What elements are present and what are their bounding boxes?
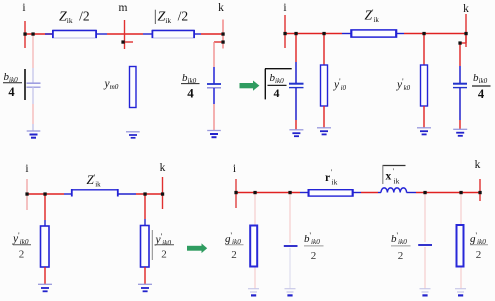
- label y'_i0: [333, 77, 347, 92]
- ground (TL middle): [126, 132, 140, 138]
- node k tick (TR) and jog: [460, 14, 466, 47]
- ground (BL right): [138, 284, 152, 291]
- label y_m0: [104, 78, 119, 91]
- wire below capacitor (TR left): [295, 88, 297, 130]
- inductor x'_ik: [381, 188, 407, 193]
- wire below capacitor (TR right): [459, 88, 461, 129]
- label y'_ik0/2 (BL right) with left bar: [152, 230, 174, 261]
- admittance box y'_ik0/2 (BL left): [41, 226, 50, 267]
- left branch wire (BL): [44, 194, 46, 226]
- label b_ik0/4 (TL left) with right bar: [3, 69, 25, 100]
- svg-text:2: 2: [398, 250, 404, 262]
- capacitor b_ik0/4 (TR left): [289, 84, 304, 88]
- conductance box g'_ik0/2 (BR right): [457, 225, 464, 267]
- svg-text:m: m: [119, 2, 128, 14]
- node i tick (BL): [26, 179, 28, 210]
- label g'_ik0/2 (BR right): [470, 231, 488, 261]
- label b_ik0/4 (TR left) with frame: [265, 69, 292, 100]
- capacitor b_ik0/4 (TR right): [453, 84, 467, 88]
- admittance box y_m0: [130, 67, 137, 108]
- ground (TL right): [207, 131, 221, 138]
- svg-text:4: 4: [274, 86, 280, 100]
- admittance box y'_i0: [321, 65, 328, 106]
- label b_ik0/4 (TR right): [472, 72, 491, 101]
- svg-text:2: 2: [161, 249, 167, 261]
- capacitor b_ik0/4 (TL right): [207, 84, 221, 88]
- branch 2 wire above box (TR): [323, 34, 325, 66]
- label Z'_ik (BL): [87, 172, 102, 189]
- ground (TR branch 1): [289, 130, 303, 136]
- wire below capacitor to ground: [213, 88, 215, 130]
- svg-text:x: x: [386, 171, 392, 183]
- branch 4 wire (TR, at k): [459, 43, 461, 84]
- wire lead blue left of box1: [45, 33, 53, 35]
- node k tick (BR): [479, 179, 481, 201]
- svg-text:i: i: [22, 2, 25, 14]
- label Z_ik/2 (right) with leading bar: [155, 9, 188, 26]
- ground (BR branch 1): [248, 289, 259, 296]
- svg-text:k: k: [475, 159, 481, 171]
- wire below box to ground (BL right): [144, 267, 146, 284]
- branch 4 wire (BR, g right): [460, 193, 462, 289]
- label Z_ik/2 (left): [59, 9, 90, 26]
- ground (TR branch 2): [317, 128, 331, 135]
- node k junction dots and jog: [214, 41, 223, 43]
- label Z'_ik: [365, 8, 380, 25]
- branch 2 wire (BR, b left): [289, 193, 291, 289]
- branch 2 wire below box: [323, 106, 325, 128]
- ground (TR branch 3): [417, 128, 431, 135]
- svg-text:ik: ik: [332, 178, 338, 187]
- svg-text:2: 2: [311, 250, 317, 262]
- label y'_ik0/2 (BL left): [12, 231, 31, 261]
- label b'_ik0/2 (BR branch 3): [391, 231, 411, 262]
- svg-text:k: k: [160, 162, 166, 174]
- resistor box Z'_ik: [351, 30, 397, 38]
- svg-text:i: i: [283, 2, 286, 14]
- ground (BR branch 2): [285, 289, 296, 296]
- ground (TR branch 4): [453, 129, 467, 136]
- resistor box Z_ik/2 (left): [53, 30, 97, 38]
- svg-text:2: 2: [19, 249, 25, 261]
- wire box1 to m: [97, 33, 144, 35]
- capacitor b'_ik0/2 (BR left) single plate: [284, 245, 298, 247]
- wire i to box1: [25, 33, 52, 35]
- label r'_ik: [325, 168, 338, 187]
- capacitor b_ik0/4 (left): [27, 83, 41, 87]
- wire box2 to k: [195, 33, 224, 35]
- node k tick (BL): [162, 177, 164, 209]
- svg-text:4: 4: [8, 85, 15, 99]
- resistor box r'_ik: [308, 189, 353, 196]
- right branch wire (BL): [144, 194, 146, 226]
- branch 3 wire above box (TR): [423, 34, 425, 66]
- bottom wire (BL): [27, 193, 163, 195]
- junction dots (all circuits, drawn on top): [23, 32, 481, 196]
- green arrow 1: [240, 81, 260, 91]
- wire below box to ground (BL left): [44, 267, 46, 284]
- ground (BR branch 4): [455, 289, 466, 296]
- label y'_k0: [396, 77, 411, 92]
- green arrow 2: [187, 243, 207, 253]
- bottom wire (BR): [236, 192, 480, 194]
- node i tick (TR): [284, 15, 286, 48]
- wire below capacitor: [32, 87, 34, 131]
- svg-text:k: k: [463, 3, 469, 15]
- svg-text:4: 4: [187, 86, 194, 101]
- admittance box y'_ik0/2 (BL right): [141, 226, 150, 268]
- ground (TL left): [27, 131, 41, 138]
- node k tick: [222, 20, 224, 49]
- branch 3 wire below box: [423, 106, 425, 128]
- svg-text:i: i: [25, 163, 28, 175]
- svg-text:i: i: [233, 163, 236, 175]
- wire lead blue left of box2: [143, 33, 152, 35]
- wire branch k down: [213, 42, 215, 84]
- svg-text:2: 2: [231, 249, 237, 261]
- branch 1 wire (TR, at i): [295, 34, 297, 84]
- svg-text:2: 2: [476, 249, 482, 261]
- admittance box y'_k0: [421, 65, 428, 106]
- conductance box g'_ik0/2 (BR left): [250, 226, 257, 267]
- label x'_ik with overline frame: [383, 166, 406, 186]
- ground (BR branch 3): [420, 289, 431, 296]
- ground (BL left): [38, 284, 52, 291]
- svg-text:k: k: [218, 2, 224, 14]
- node i tick (BR): [235, 179, 237, 208]
- label b_ik0/4 (TL right): [181, 72, 200, 101]
- resistor box Z_ik/2 (right): [152, 30, 195, 38]
- svg-text:ik: ik: [394, 177, 400, 186]
- node m tick: [122, 20, 133, 49]
- svg-text:r: r: [325, 172, 330, 184]
- label b'_ik0/2 (BR branch 2): [304, 231, 324, 262]
- impedance element Z'_ik (BL, open box): [72, 189, 118, 197]
- branch 3 wire (BR, b right): [424, 193, 426, 289]
- capacitor b'_ik0/2 (BR right) single plate: [418, 244, 432, 246]
- top wire (TR): [285, 33, 466, 35]
- svg-text:4: 4: [478, 87, 485, 101]
- wire branch i down: [32, 34, 34, 83]
- branch 1 wire (BR, g left): [254, 193, 256, 289]
- label g'_ik0/2 (BR left): [225, 231, 244, 261]
- node i tick: [24, 21, 26, 48]
